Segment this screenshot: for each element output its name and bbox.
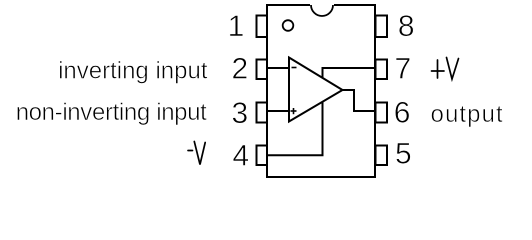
pin 8 [376,16,388,38]
op-amp minus input marker [292,67,297,69]
svg-text:output: output [431,101,504,128]
pin 2 [257,60,268,80]
IC body U1 (8-pin DIP outline) [267,5,375,177]
wire pin7 +V to op-amp top [323,68,377,79]
op-amp plus input marker [291,110,297,112]
svg-text:5: 5 [395,138,412,171]
svg-text:6: 6 [394,97,411,130]
notch (pin-1 end indicator) [310,2,334,8]
svg-text:8: 8 [398,10,415,43]
pin 5 [376,146,388,166]
svg-text:non-inverting input: non-inverting input [16,99,207,126]
svg-text:4: 4 [233,140,250,173]
label +V (pin 7) [432,58,459,80]
pin 6 [376,103,388,123]
pin-1 indicator dot [283,20,294,31]
wire op-amp output to pin6 [341,90,376,111]
svg-text:2: 2 [232,53,249,86]
wire pin3 to non-inverting input [266,110,290,112]
wire pin4 -V to op-amp bottom [266,101,323,156]
pin 4 [257,146,268,166]
svg-text:7: 7 [394,53,411,86]
svg-text:1: 1 [228,10,245,43]
wire pin2 to inverting input [266,67,290,69]
label -V (pin 4) [188,142,205,165]
op-amp U1 triangle [289,58,343,122]
pin 3 [257,103,268,123]
svg-text:inverting input: inverting input [58,58,208,85]
svg-text:3: 3 [232,97,249,130]
pin 1 [257,16,268,38]
pin 7 [376,60,388,80]
